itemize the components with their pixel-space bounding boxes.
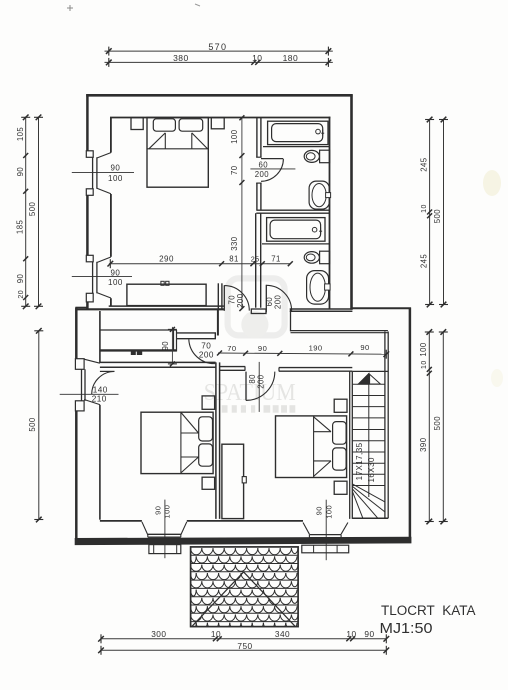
svg-text:90: 90 (110, 269, 120, 278)
svg-text:90: 90 (154, 506, 163, 515)
svg-text:330: 330 (230, 236, 239, 251)
wall: lower block bottom inner segments (100, 520, 142, 522)
door D4 80/200 arc (246, 372, 275, 401)
bed 2 pillows (199, 417, 213, 441)
door D1 70/200 leaf (223, 285, 225, 311)
wall: upper block right outer (350, 94, 353, 310)
bed 2 outline (141, 412, 213, 473)
svg-text:81: 81 (229, 254, 239, 263)
sink 1 tap (326, 193, 331, 198)
window W1 (left wall, 90/100) jambs and frame (86, 151, 93, 158)
bed 3 fold line (313, 416, 315, 478)
svg-text:90: 90 (364, 629, 374, 639)
svg-text:17X17,35: 17X17,35 (355, 442, 364, 480)
closet bedroom1 handles (161, 281, 164, 285)
stair start marker black triangle (358, 374, 369, 385)
window W2b centerline (164, 500, 166, 559)
wall: upper block left outer segments (86, 94, 89, 151)
svg-text:140: 140 (93, 386, 108, 395)
window W1 splayed reveals (97, 153, 111, 158)
wall: stair enclosure left (349, 371, 351, 519)
window W2 (left wall, 90/100) jambs and frame (86, 255, 93, 261)
wall: between bathrooms (256, 209, 329, 211)
svg-text:70: 70 (230, 165, 239, 175)
svg-text:290: 290 (159, 255, 174, 264)
svg-text:10: 10 (421, 204, 428, 213)
bed 2 blanket triangles (181, 432, 199, 434)
nightstand bed3 top (334, 399, 347, 412)
wall: upper block left inner face segments (110, 117, 112, 153)
stair enclosure bottom line (352, 517, 388, 519)
window W2b frame (148, 533, 181, 535)
svg-text:570: 570 (208, 42, 227, 52)
svg-text:MJ1:50: MJ1:50 (380, 620, 433, 637)
wall: lower block west outer segments (75, 308, 78, 359)
wall: bathroom2 left (255, 213, 257, 308)
wall: T-foot below bathroom wall (251, 309, 266, 314)
door/window 140x210 jambs and frame (75, 359, 84, 370)
door bathroom1 60/200 leaf and arc (261, 158, 283, 160)
toilet WC1 tank (320, 150, 330, 163)
svg-text:10: 10 (421, 360, 428, 369)
svg-text:200: 200 (256, 374, 265, 389)
svg-text:20: 20 (18, 290, 25, 299)
svg-text:10: 10 (346, 629, 356, 639)
svg-text:750: 750 (237, 641, 252, 651)
roof outline (191, 547, 299, 627)
svg-text:60: 60 (259, 161, 269, 170)
watermark dashes row (222, 405, 228, 413)
sink 2 (307, 271, 329, 305)
right dimension chain 245/10/245 (upper) (429, 120, 431, 305)
bottom dimension line 750 (101, 649, 386, 651)
dimension line 570 (top) (105, 50, 333, 52)
svg-text:245: 245 (419, 157, 428, 172)
svg-text:380: 380 (173, 53, 189, 63)
svg-text:245: 245 (419, 254, 428, 269)
closet bedroom3 knob (242, 477, 246, 483)
nightstand bed1 left (131, 118, 143, 130)
door 140x210 swing arc (92, 372, 115, 395)
bed 3 blanket triangles (314, 431, 331, 433)
nightstand bed3 bottom (334, 481, 347, 494)
toilet WC2 bowl (304, 252, 319, 264)
watermark logo squircle ring (228, 278, 285, 335)
stair void left edge (290, 310, 292, 332)
window W3b frame (309, 534, 341, 536)
wall: bedroom3 top left piece (220, 366, 246, 368)
bed 3 outline (276, 416, 347, 478)
svg-text:100: 100 (108, 278, 123, 287)
wall: lower block right outer (409, 308, 412, 544)
left dimension chain 105/90/185/90/20 (25, 117, 27, 306)
svg-text:71: 71 (271, 254, 281, 263)
svg-text:100: 100 (108, 174, 123, 183)
bathtub 2 (267, 218, 325, 242)
wall: bathroom1 left (upper segment) (256, 118, 258, 158)
svg-text:10: 10 (252, 53, 262, 63)
hall dimension line 70/90/190/90 (218, 353, 387, 354)
watermark logo disc (241, 311, 268, 338)
wall: lower block top-left extension (75, 307, 88, 309)
svg-text:100: 100 (419, 342, 428, 357)
svg-text:90: 90 (161, 341, 170, 351)
svg-text:10: 10 (211, 629, 221, 639)
hall closet (100, 329, 177, 331)
svg-text:100: 100 (230, 129, 239, 144)
door D1 70/200 arc (224, 286, 249, 311)
stair marker open triangle (370, 374, 381, 384)
right dimension line 500 (upper) (443, 120, 445, 305)
nightstand bed2 bottom (202, 477, 215, 489)
mini dimension 90 (hall corridor) (171, 327, 173, 365)
svg-text:200: 200 (199, 351, 214, 360)
scan mark top-left (67, 5, 73, 11)
wall: upper block top inner (110, 117, 330, 119)
bathtub 2 drain and tap (312, 227, 317, 232)
bathtub 1 (268, 121, 328, 144)
hall closet handles (131, 351, 135, 354)
roof hip lines (192, 572, 244, 626)
wall: upper block bottom (bedroom side) (109, 305, 224, 307)
svg-text:TLOCRT KATA: TLOCRT KATA (381, 603, 476, 619)
door D4 80/200 leaf (245, 372, 247, 401)
stair treads (352, 383, 385, 385)
bathtub 1 drain and tap (316, 129, 321, 134)
svg-text:200: 200 (274, 295, 283, 310)
left dimension line 500 (lower) (38, 331, 40, 520)
wall: bedroom2 top (100, 361, 216, 363)
svg-text:190: 190 (309, 343, 323, 352)
scan mark top-center (195, 4, 200, 6)
svg-text:70: 70 (227, 344, 236, 353)
wall: hall west inner face (99, 311, 101, 363)
nightstand bed2 top (202, 396, 215, 409)
door 140x210 centerline (60, 393, 119, 395)
sink 1 (309, 181, 329, 209)
svg-text:90: 90 (16, 274, 25, 284)
dimension line 380/10/180 (top) (105, 61, 333, 63)
svg-text:500: 500 (28, 202, 37, 217)
wall: lower block bottom outer thick band (75, 537, 411, 544)
wall: upper block top outer (86, 94, 352, 97)
wall: upper block right inner face (329, 117, 331, 309)
svg-text:105: 105 (16, 127, 25, 142)
left dimension line 500 (upper) (38, 117, 40, 306)
svg-text:185: 185 (16, 220, 25, 235)
window W2b sill (149, 545, 181, 554)
svg-text:500: 500 (433, 209, 442, 224)
door D2 60/200 leaf (265, 285, 267, 313)
bottom dimension chain 300/10/340/10/90 (101, 638, 386, 640)
bathroom2 step line (262, 243, 330, 245)
door bathroom1 label pointer (250, 168, 295, 170)
bed 1 blanket triangles (164, 133, 166, 149)
svg-text:90: 90 (258, 344, 267, 353)
wall: bedroom3 top right piece (279, 367, 353, 369)
svg-text:210: 210 (92, 395, 107, 404)
right dimension line 500 (lower) (442, 332, 444, 522)
svg-text:16X30: 16X30 (367, 457, 376, 482)
scan smudge right margin (483, 170, 501, 196)
wall: bedroom1 partial right wall (217, 283, 219, 309)
bed 3 pillows (333, 422, 347, 445)
svg-text:300: 300 (151, 629, 166, 639)
svg-text:90: 90 (315, 506, 324, 515)
corridor dimension chain 100/70/330 (241, 118, 243, 309)
svg-text:70: 70 (201, 341, 211, 350)
window W3b sill (302, 545, 349, 553)
svg-text:500: 500 (433, 416, 442, 431)
svg-text:180: 180 (283, 53, 299, 63)
wall: bedroom2 west inner face (99, 405, 101, 520)
svg-text:200: 200 (236, 293, 245, 308)
svg-text:90: 90 (360, 343, 369, 352)
bed 1 outline (147, 118, 208, 188)
window W2b (bottom, 90/100) splays (142, 522, 148, 535)
svg-text:200: 200 (255, 170, 270, 179)
svg-text:25: 25 (251, 254, 260, 263)
wall: upper block bottom (right portion) (290, 308, 353, 310)
svg-text:100: 100 (324, 505, 333, 519)
door 140x210 splayed reveals (84, 359, 100, 363)
nightstand bed1 right (211, 118, 224, 129)
window W3b (bottom, 90/100) splays (303, 523, 309, 535)
stair center line (368, 373, 370, 497)
window W2 splayed reveals (97, 257, 111, 263)
closet bedroom1 (127, 284, 206, 305)
wall: bathroom1 left (lower segment) (256, 183, 258, 210)
wall: stub above divider (217, 310, 219, 336)
door D2 60/200 arc (266, 285, 291, 310)
dimension line 290/81/25/71 (109, 263, 290, 265)
svg-text:390: 390 (419, 437, 428, 452)
window W3b centerline (325, 500, 327, 561)
stair winders (352, 484, 385, 502)
stair enclosure top line (352, 370, 388, 372)
svg-text:90: 90 (110, 164, 120, 173)
door D4 centerline (258, 362, 260, 412)
svg-text:100: 100 (163, 505, 172, 519)
sink 2 tap (325, 284, 331, 290)
toilet WC2 tank (320, 251, 330, 264)
toilet WC1 bowl (304, 150, 319, 162)
door D3 70/200 (hall) arc (189, 339, 216, 363)
window W2 centerline (72, 276, 132, 278)
bed 2 fold line (180, 412, 182, 473)
bed 1 fold line (147, 148, 208, 150)
bed 1 pillows (153, 119, 175, 131)
right dimension chain 100/10/390 (lower) (428, 332, 430, 522)
stair void bottom edge (291, 330, 388, 332)
wall: stair enclosure right (384, 332, 386, 519)
svg-text:340: 340 (275, 629, 290, 639)
svg-text:90: 90 (16, 167, 25, 177)
closet bedroom3 (222, 444, 244, 518)
bathroom1 step line (263, 146, 330, 148)
wall: lower block top-right (352, 307, 411, 309)
window W1 centerline (72, 171, 134, 173)
wall: divider bedroom2/bedroom3 (215, 362, 217, 519)
svg-text:500: 500 (28, 417, 37, 432)
wall bar right of closet (177, 332, 216, 334)
